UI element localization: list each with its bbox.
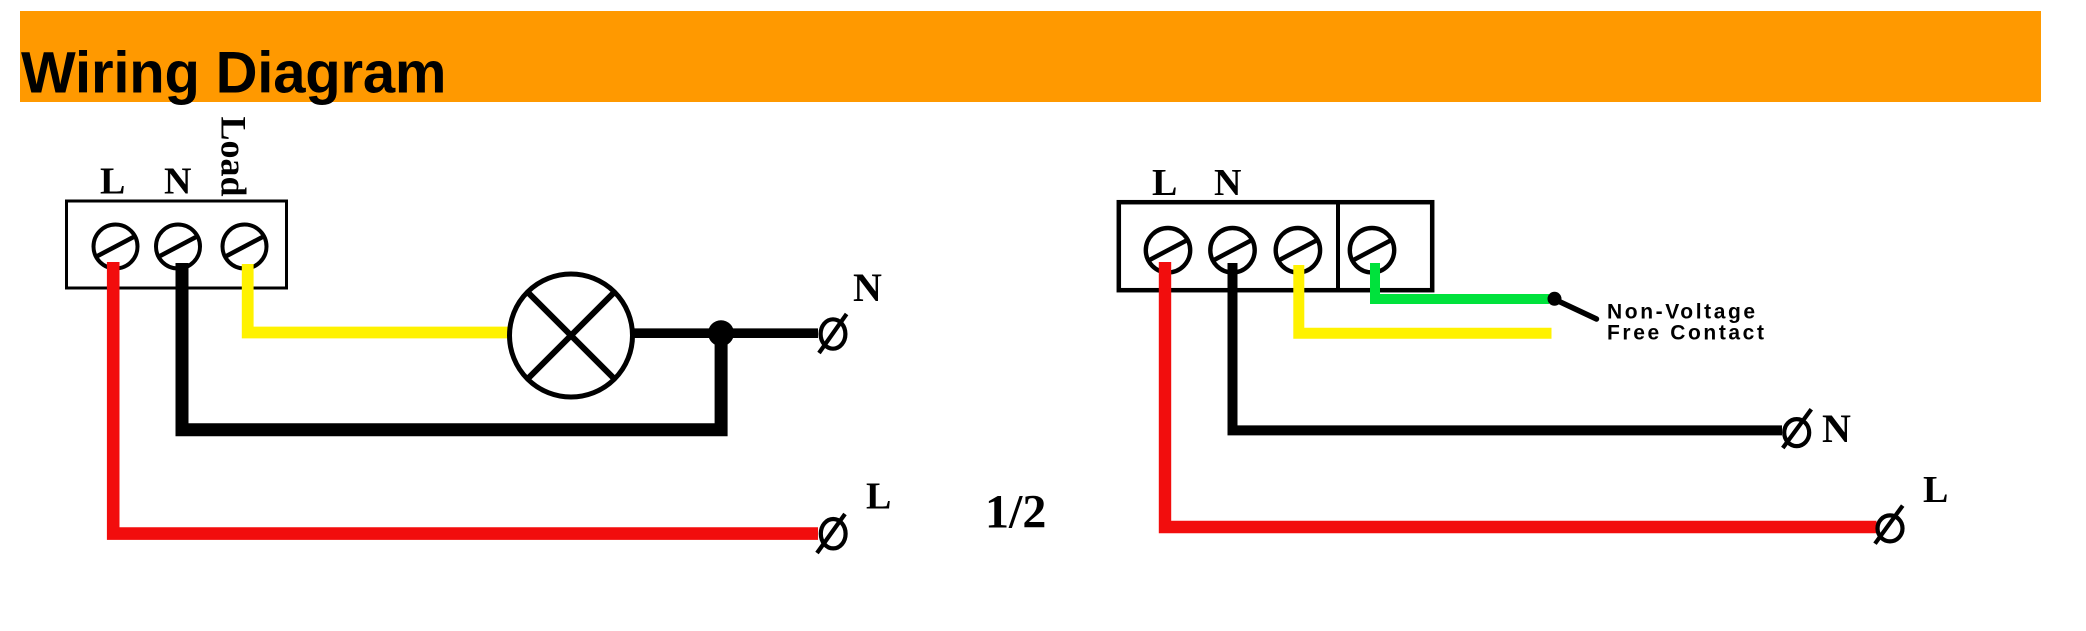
header bar xyxy=(20,11,2041,102)
svg-text:N: N xyxy=(1214,162,1241,204)
label Non-Voltage Free Contact xyxy=(1607,301,1767,345)
svg-text:L: L xyxy=(1923,469,1948,511)
terminal L (right diagram) xyxy=(1875,506,1903,544)
svg-text:1/2: 1/2 xyxy=(985,486,1046,539)
screw terminal TB2-L xyxy=(1146,228,1190,272)
terminal N (right diagram) xyxy=(1783,409,1812,448)
svg-text:L: L xyxy=(866,476,891,518)
svg-text:Free Contact: Free Contact xyxy=(1607,321,1767,344)
wire black lamp to terminal N xyxy=(632,328,818,338)
terminal N (left diagram) xyxy=(819,314,847,353)
terminal L (left diagram) xyxy=(817,514,846,553)
svg-text:L: L xyxy=(1152,162,1177,204)
wire yellow TB2-3 to contact xyxy=(1299,265,1552,333)
screw terminal TB2-4 xyxy=(1350,228,1394,272)
wire yellow TB1-Load to lamp xyxy=(248,264,510,333)
svg-text:N: N xyxy=(164,161,191,203)
wire red TB2-L to terminal L xyxy=(1165,262,1877,527)
wire black TB1-N to junction xyxy=(182,263,721,430)
junction dot xyxy=(708,320,734,346)
lamp E1 xyxy=(510,274,633,397)
screw terminal TB1-N xyxy=(156,225,200,269)
screw terminal TB2-N xyxy=(1210,228,1254,272)
svg-text:L: L xyxy=(100,161,125,203)
screw terminal TB1-Load xyxy=(223,225,267,269)
svg-text:Load: Load xyxy=(214,117,254,197)
wire green TB2-4 to contact xyxy=(1375,263,1549,299)
screw terminal TB2-3 xyxy=(1276,228,1320,272)
wire black TB2-N to terminal N xyxy=(1233,263,1783,430)
svg-text:N: N xyxy=(1822,406,1851,451)
terminal block TB2 xyxy=(1119,202,1432,290)
svg-text:N: N xyxy=(853,265,882,310)
wire red TB1-L to terminal L xyxy=(113,262,818,534)
contact lever xyxy=(1556,300,1597,319)
svg-text:Non-Voltage: Non-Voltage xyxy=(1607,301,1758,324)
contact pivot dot xyxy=(1548,292,1562,306)
svg-text:Wiring Diagram: Wiring Diagram xyxy=(21,41,446,106)
terminal block TB1 xyxy=(67,201,287,288)
screw terminal TB1-L xyxy=(94,225,138,269)
TB2 divider xyxy=(1336,202,1340,290)
